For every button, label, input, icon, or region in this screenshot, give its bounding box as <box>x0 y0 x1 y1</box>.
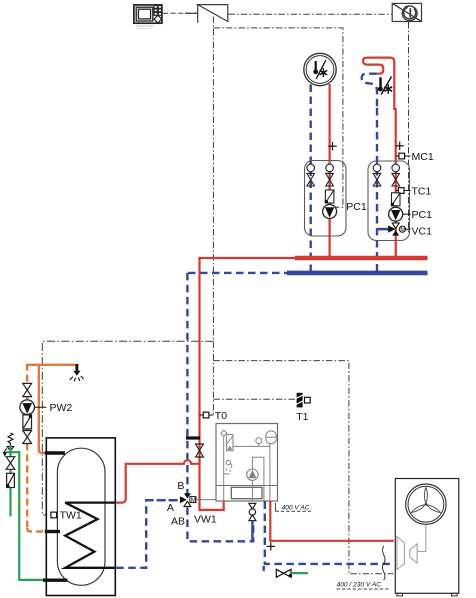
pipe red to coil <box>116 463 126 503</box>
casing <box>395 479 459 594</box>
wire room unit down to MC1/TC1/PC1/VC1 <box>408 22 410 232</box>
wall squiggle <box>382 546 385 580</box>
svg-text:VC1: VC1 <box>412 225 433 237</box>
pump PC1 left <box>323 205 337 219</box>
pipe blue to heat pump <box>265 502 394 564</box>
safety valve <box>227 435 233 451</box>
svg-text:400 V AC: 400 V AC <box>282 505 310 512</box>
svg-text:MC1: MC1 <box>412 151 434 163</box>
svg-text:400 / 230 V AC: 400 / 230 V AC <box>337 582 382 589</box>
internal connection line <box>233 445 270 447</box>
tank outer casing <box>46 438 115 596</box>
svg-text:PC1: PC1 <box>346 201 367 213</box>
sensor TC1 square <box>396 188 411 194</box>
plus mark <box>267 542 275 550</box>
pipe red boiler riser <box>200 257 224 510</box>
group box <box>305 161 347 237</box>
wire bus to TW1 <box>42 341 213 515</box>
pipe red to heat pump <box>270 502 394 541</box>
pipe blue return HC1 <box>310 85 312 272</box>
pipe orange circulation with PW2 <box>26 364 28 384</box>
wire bus to heat pump <box>213 361 393 574</box>
pipe red flow serpentine <box>363 58 394 110</box>
svg-text:T0: T0 <box>215 410 227 422</box>
svg-text:B: B <box>177 480 184 492</box>
thermostat thermometer/frost <box>379 77 381 87</box>
tank port top <box>45 451 65 454</box>
valve below check <box>23 431 32 444</box>
pump service valves <box>249 503 256 520</box>
svg-text:PW2: PW2 <box>50 402 73 414</box>
valve triangles <box>184 493 191 498</box>
pipe orange circulation top <box>27 364 76 366</box>
pump loop <box>252 457 264 501</box>
motor M <box>190 497 196 503</box>
wire mains underline 400V <box>274 503 276 511</box>
valve blue circle+bowtie <box>373 164 381 172</box>
safety valve blob <box>227 446 232 450</box>
pipe red manifold <box>198 257 427 259</box>
unit casing <box>216 424 278 502</box>
tank vessel <box>57 448 105 585</box>
svg-text:PC1: PC1 <box>412 209 433 221</box>
sensor T1 <box>296 393 310 423</box>
relief diamond <box>221 430 227 436</box>
heat exchanger coil <box>65 503 116 568</box>
internal exchanger symbols <box>397 524 426 569</box>
fan <box>406 484 446 524</box>
valve on circulation <box>23 383 32 396</box>
valve on riser <box>196 444 204 457</box>
internal flow line <box>223 433 225 501</box>
sensor T0 <box>200 414 204 416</box>
mixing valve VC1 <box>377 223 411 236</box>
valve red circle+bowtie <box>326 164 334 172</box>
expansion vessel <box>266 431 276 444</box>
check valve <box>23 415 32 429</box>
pipe blue manifold <box>188 272 288 274</box>
svg-text:AB: AB <box>171 515 185 527</box>
cap bar on blue stub <box>186 436 200 439</box>
sensor MC1 square <box>396 153 411 159</box>
tank port circulation <box>45 530 60 533</box>
svg-text:TC1: TC1 <box>412 185 432 197</box>
plus mark <box>328 142 336 150</box>
wire mains underline 400/230 <box>337 588 390 590</box>
safety valve group on cold water <box>4 433 14 456</box>
group box <box>368 161 410 241</box>
wire bus to T1 <box>213 398 296 400</box>
pipe orange to tank top <box>39 364 45 453</box>
svg-text:A: A <box>167 502 174 514</box>
pipe blue AB line <box>187 508 253 542</box>
svg-text:T1: T1 <box>296 411 308 423</box>
balancing valve <box>325 190 334 203</box>
pipe red flow HC2 <box>395 108 397 258</box>
pipe blue pump suction <box>251 521 253 541</box>
svg-text:VW1: VW1 <box>194 514 217 526</box>
pump PW2 <box>20 400 35 415</box>
pipe blue A line <box>146 499 180 501</box>
svg-text:M: M <box>191 497 196 504</box>
wire vertical bus x213 <box>212 17 214 416</box>
valve red circle+bowtie <box>392 164 400 172</box>
pipe blue return HC2 <box>376 108 378 272</box>
pump PC1 right <box>389 207 403 221</box>
pipe blue coil return <box>116 500 179 568</box>
valve blue circle+bowtie <box>307 164 315 172</box>
internal pump <box>247 469 258 480</box>
pipe blue left drop to VW1 B <box>186 273 188 494</box>
svg-text:TW1: TW1 <box>60 510 82 522</box>
wire top bus to room unit <box>228 13 392 15</box>
pipe red flow HC1 <box>329 84 331 258</box>
pipe blue return from serpentine <box>362 74 377 110</box>
plus mark <box>396 142 404 150</box>
svg-text:M: M <box>400 227 405 234</box>
wire controller to outdoor sensor <box>163 12 198 14</box>
check valve on cold water <box>6 473 14 487</box>
wire bus to PC1 left pump <box>213 28 343 207</box>
pipe red tank to boiler with hop <box>125 460 201 464</box>
pipe green cold water <box>6 451 19 453</box>
tap symbol <box>70 364 84 381</box>
pressure gauge <box>256 438 262 444</box>
valve on cold water <box>6 457 15 470</box>
tank port cold <box>43 579 67 582</box>
balancing valve <box>391 193 400 206</box>
drain valve with hose <box>276 569 308 577</box>
air vent <box>226 460 232 472</box>
sensor TW1 <box>51 512 57 518</box>
